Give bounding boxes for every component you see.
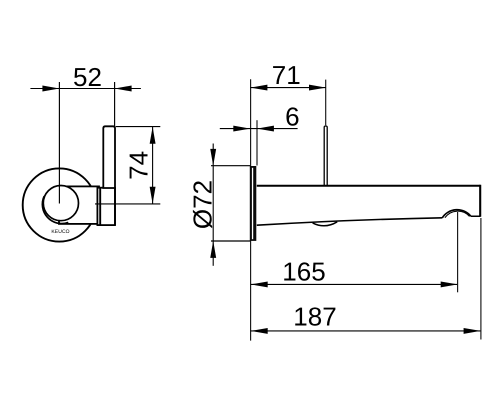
svg-text:187: 187	[293, 302, 336, 332]
handle sleeve (cartridge collar)	[97, 188, 115, 225]
KEUCO logo text	[51, 229, 69, 235]
svg-text:KEUCO: KEUCO	[51, 229, 69, 235]
dimension 71	[250, 60, 326, 90]
spout underside lens detail	[313, 222, 338, 226]
svg-text:165: 165	[282, 257, 325, 287]
dimension 74	[116, 127, 161, 204]
handle center extension line	[58, 82, 60, 204]
spout bottom edge	[257, 216, 481, 225]
spout wall line	[250, 79, 252, 340]
svg-text:71: 71	[272, 60, 301, 90]
spout wall plate (flange)	[250, 166, 256, 241]
escutcheon circle (handle wall rosette)	[23, 168, 96, 241]
mixer control rod	[324, 126, 327, 186]
dimension 165	[251, 212, 458, 292]
handle axis line	[95, 203, 160, 205]
svg-text:6: 6	[285, 102, 299, 132]
aerator bump inner arc	[445, 211, 470, 218]
handle knob outer circle	[43, 186, 78, 221]
dimension 52	[30, 62, 140, 127]
lever grip bar	[103, 126, 115, 225]
dimension diameter 72	[187, 144, 250, 266]
svg-text:74: 74	[123, 151, 153, 180]
svg-text:52: 52	[73, 62, 102, 92]
svg-text:Ø72: Ø72	[187, 180, 217, 229]
handle knob rim arc	[42, 196, 68, 223]
spout top edge	[257, 185, 481, 187]
aerator bump outer arc	[442, 210, 471, 218]
plate front extension line	[256, 120, 258, 165]
dimension 6	[220, 102, 300, 132]
handle arm body	[59, 186, 99, 224]
mixer rod extension line	[325, 80, 327, 126]
dimension 187	[251, 218, 481, 340]
spout right end edge	[479, 185, 481, 217]
